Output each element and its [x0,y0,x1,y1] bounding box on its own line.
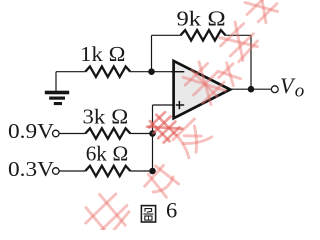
resistor R2 9k ohm (feedback) [181,30,226,40]
watermark [78,0,283,240]
svg-text:o: o [295,81,305,102]
resistor R1 1k ohm [85,67,130,77]
wire: feedback right vertical [250,35,252,89]
wire: feedback top left [152,34,181,36]
wire: plus input horizontal [153,104,174,106]
wire: ground vertical drop [55,72,57,91]
svg-text:0.3V: 0.3V [8,157,55,181]
node: 3k junction [149,130,156,137]
op-amp minus sign (input stub into triangle) [172,71,185,73]
watermark glyph D (fan-like) [172,119,212,159]
wire: 1k to op-amp minus input [130,71,173,73]
wire: feedback top right [226,34,252,36]
wire: output [232,88,272,90]
terminal Vo open circle [271,86,278,93]
svg-text:6k Ω: 6k Ω [86,141,129,165]
watermark glyph H [240,0,283,28]
wire: 6k to junction [130,170,152,172]
svg-text:9k Ω: 9k Ω [177,6,227,30]
node: 6k corner junction [149,168,156,175]
wire: 3k to junction [130,133,152,135]
svg-text:3k Ω: 3k Ω [83,105,129,129]
svg-text:6: 6 [166,198,177,223]
ground [45,91,69,105]
watermark glyph B [140,162,181,203]
op-amp plus sign [176,104,184,106]
watermark glyph I (partial) [215,60,244,89]
op-amp U1 [174,61,231,118]
caption: figure glyph (CJK drawn as path) [141,206,155,222]
watermark glyph F [180,58,230,108]
wire: feedback left vertical [151,35,153,71]
watermark glyph A [78,186,136,240]
wire: 0.9V to 3k [59,133,85,135]
node: minus input junction [148,68,155,75]
svg-text:1k Ω: 1k Ω [80,42,126,66]
wire: ground horizontal to minus row [56,71,85,73]
wire: plus input vertical [152,105,154,171]
watermark glyph C (dense, darker) [146,109,183,146]
svg-text:0.9V: 0.9V [8,119,55,143]
resistor R4 6k ohm [85,166,130,176]
watermark glyph G [216,19,262,65]
resistor R3 3k ohm [85,128,130,138]
wire: 0.3V to 6k [59,170,85,172]
node: output junction [248,86,255,93]
